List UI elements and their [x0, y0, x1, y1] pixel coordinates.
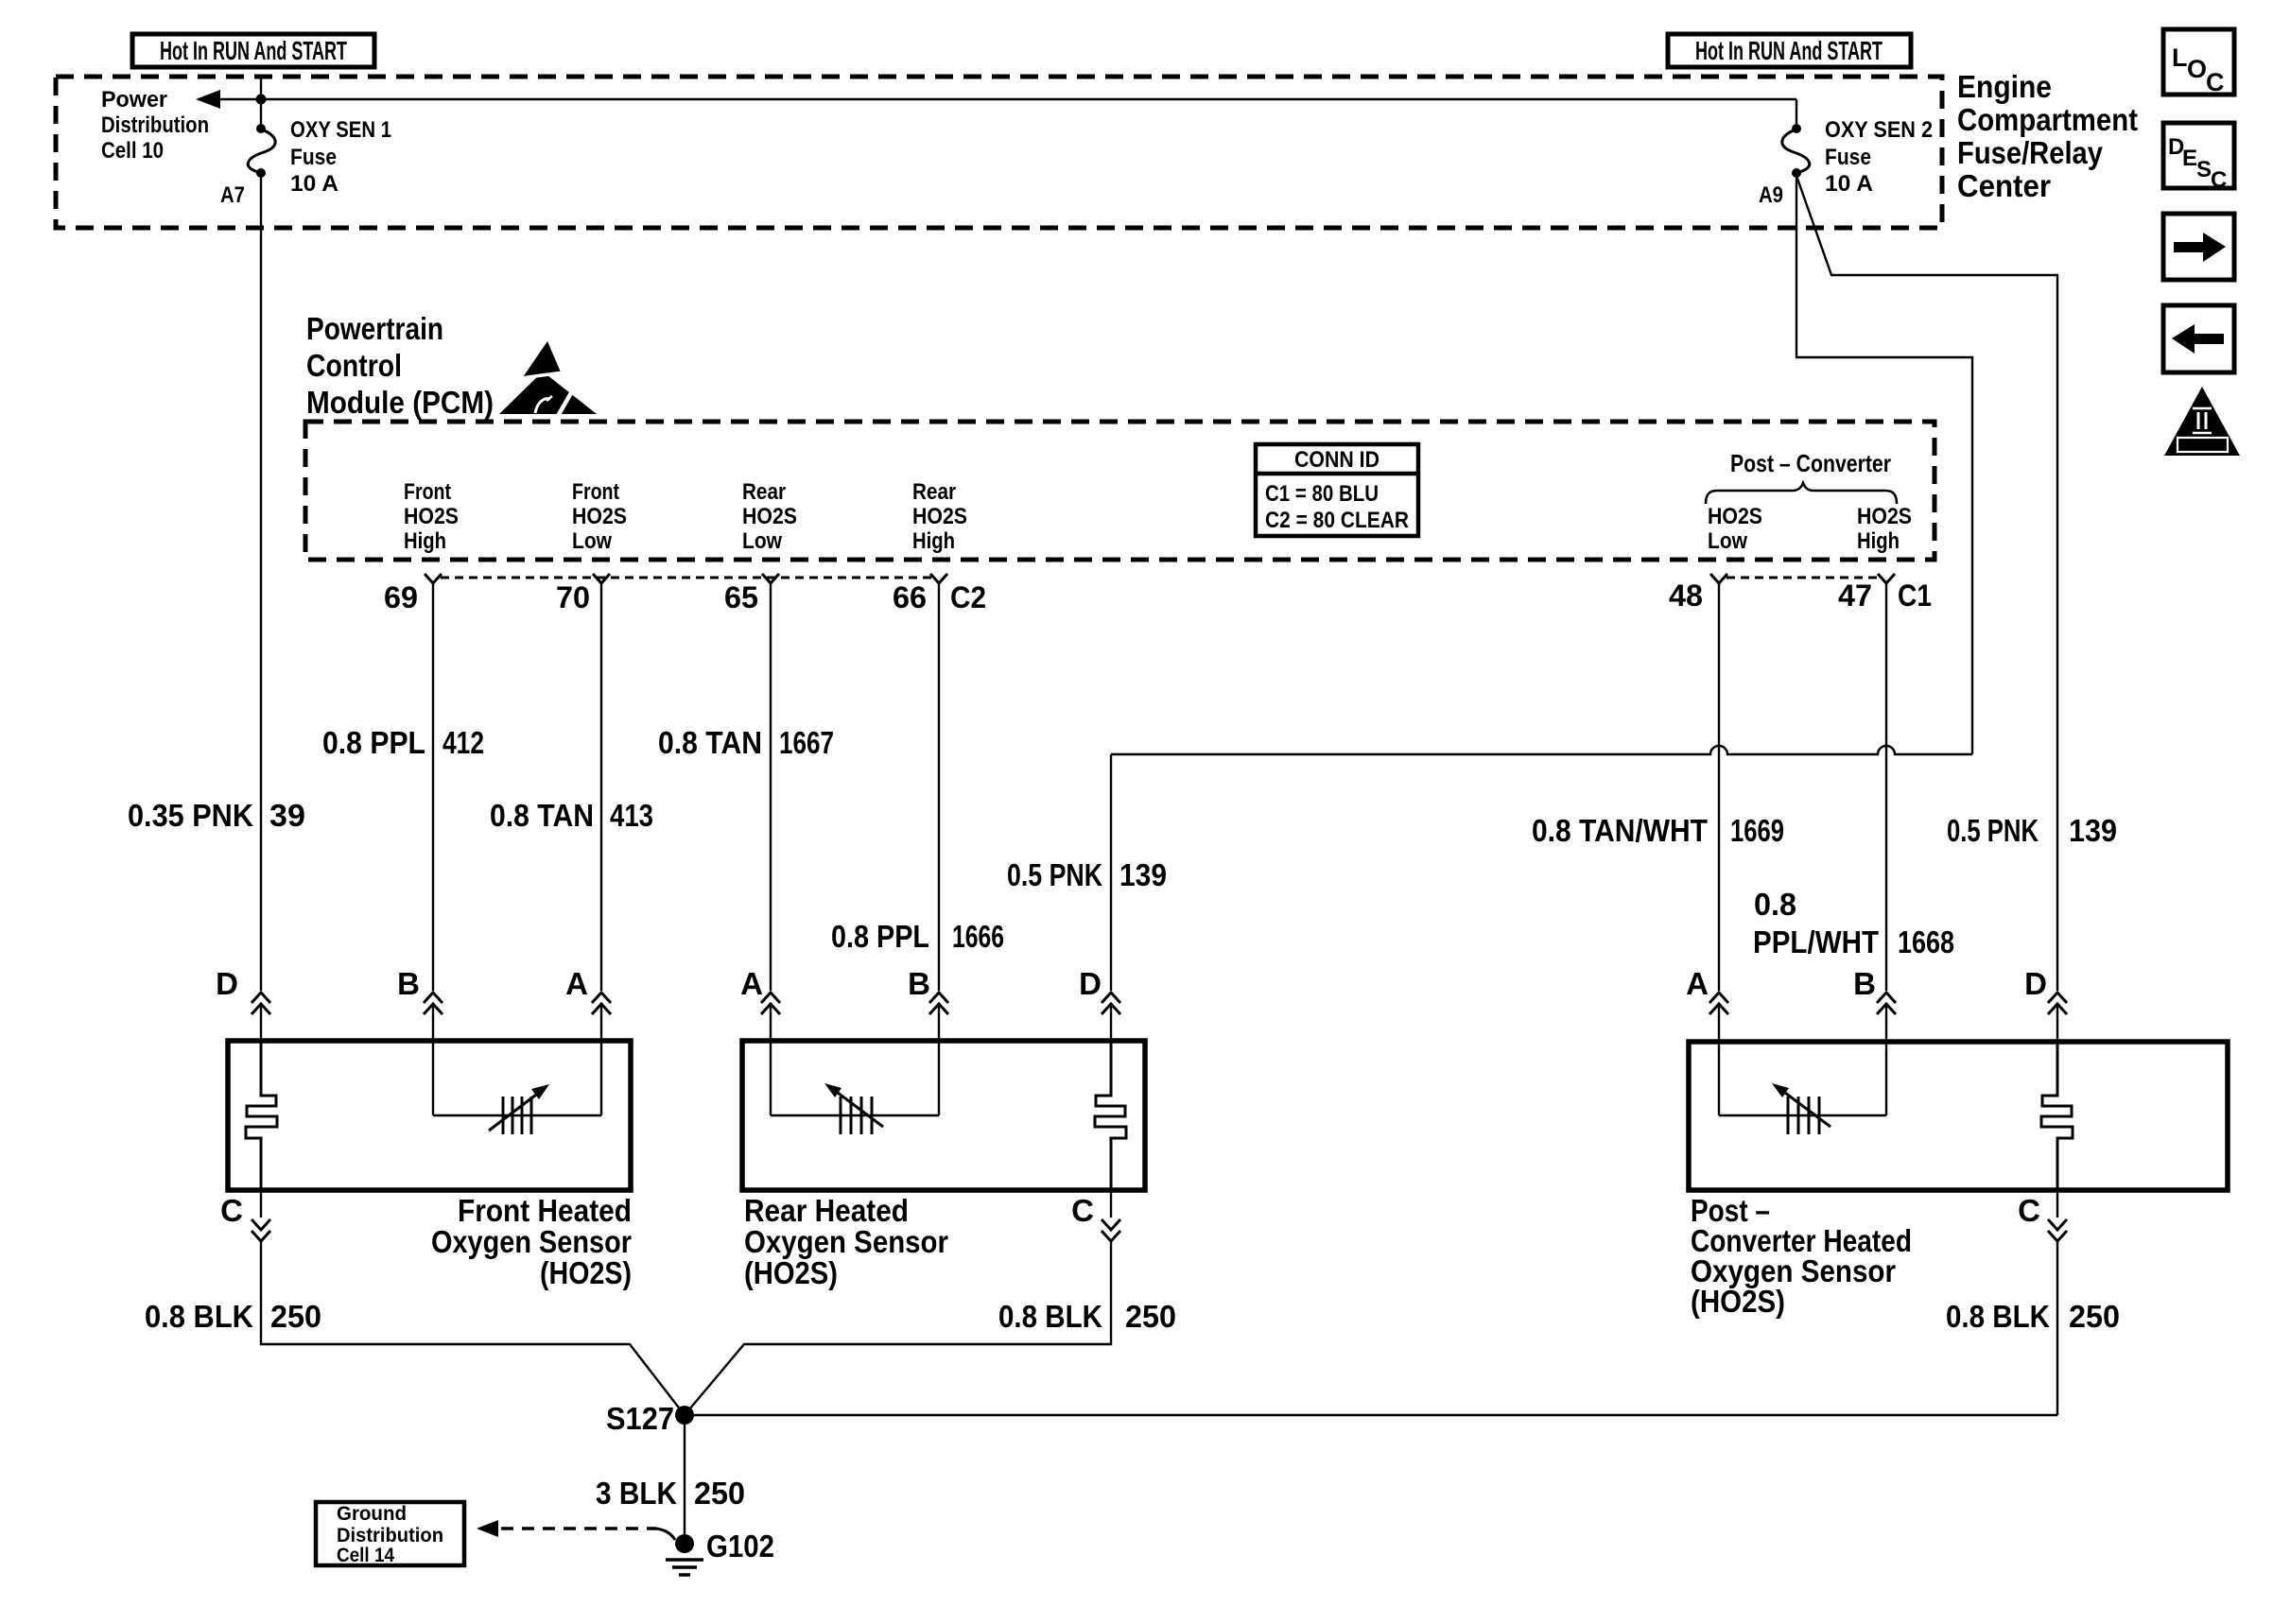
wire label: 0.35 PNK 39	[128, 798, 305, 833]
svg-text:C1: C1	[1898, 579, 1932, 613]
svg-text:C1 = 80 BLU: C1 = 80 BLU	[1265, 481, 1379, 507]
svg-text:OXY SEN 1: OXY SEN 1	[290, 117, 391, 143]
label: sensor name post	[1691, 1193, 1912, 1319]
connector chevrons: rear A	[761, 993, 780, 1014]
rear variable resistor ticks	[841, 1097, 872, 1134]
connector chevrons: rear D	[1102, 993, 1120, 1014]
svg-text:Fuse: Fuse	[1825, 145, 1871, 170]
svg-text:A9: A9	[1759, 182, 1783, 208]
svg-text:Front Heated: Front Heated	[458, 1193, 632, 1228]
label box: Ground Distribution Cell 14	[316, 1502, 464, 1566]
svg-text:Distribution: Distribution	[101, 112, 209, 138]
svg-text:0.35 PNK: 0.35 PNK	[128, 798, 253, 833]
svg-text:PPL/WHT: PPL/WHT	[1753, 924, 1879, 959]
wire: A9 fuse output path to rear HO2S D (0.5 PNK 139)	[1796, 178, 1972, 754]
post variable resistor ticks	[1788, 1097, 1819, 1134]
svg-text:Oxygen Sensor: Oxygen Sensor	[744, 1224, 948, 1259]
svg-text:1666: 1666	[952, 919, 1004, 954]
svg-text:139: 139	[2069, 813, 2117, 848]
wire label: 0.8 PPL 1666	[831, 919, 1004, 954]
ESD sensitivity symbol	[499, 341, 597, 416]
connector chevrons: front B	[424, 993, 442, 1014]
svg-text:Low: Low	[572, 528, 612, 554]
sidebar icon: LOC	[2163, 29, 2234, 96]
svg-text:70: 70	[556, 580, 590, 614]
svg-text:C: C	[2206, 68, 2225, 96]
svg-text:(HO2S): (HO2S)	[540, 1255, 632, 1290]
svg-text:Hot In RUN And START: Hot In RUN And START	[1695, 36, 1883, 65]
wire: front C to splice (0.8 BLK 250)	[261, 1190, 685, 1415]
svg-text:69: 69	[384, 580, 418, 614]
wire: 0.5 PNK 139 horizontal run with crossover hops	[1111, 746, 1972, 754]
rear variable resistor arrow (up-left)	[824, 1083, 883, 1127]
svg-text:Oxygen Sensor: Oxygen Sensor	[431, 1224, 632, 1259]
wire label: 0.8 TAN 1667	[658, 725, 834, 760]
label: OXY SEN 2 Fuse 10 A	[1825, 117, 1933, 197]
wire: pin 69 to front HO2S B (0.8 PPL 412)	[432, 583, 434, 1115]
label: sensor name rear	[744, 1193, 948, 1290]
svg-text:Rear: Rear	[912, 479, 956, 505]
svg-text:Ground: Ground	[337, 1503, 407, 1525]
svg-text:S: S	[2196, 157, 2212, 182]
rear sensing element loop	[771, 1114, 939, 1116]
svg-text:0.8 TAN: 0.8 TAN	[490, 798, 594, 833]
wire: rear HO2S D drop	[1110, 754, 1112, 1041]
svg-text:Rear Heated: Rear Heated	[744, 1193, 909, 1228]
svg-text:0.8 BLK: 0.8 BLK	[145, 1299, 253, 1334]
PCM pin heading: Rear HO2S High	[912, 479, 967, 554]
svg-text:High: High	[1857, 528, 1900, 554]
svg-text:S127: S127	[606, 1401, 674, 1436]
svg-text:0.8 TAN/WHT: 0.8 TAN/WHT	[1532, 813, 1708, 848]
wire label: 0.8 TAN/WHT 1669	[1532, 813, 1784, 848]
sidebar icon: arrow right	[2163, 214, 2234, 280]
svg-text:250: 250	[2069, 1299, 2120, 1334]
fuse OXY SEN 2 10A	[1782, 124, 1810, 178]
post sensing element loop	[1719, 1114, 1886, 1116]
svg-text:3 BLK: 3 BLK	[596, 1476, 677, 1511]
wire label: 0.5 PNK 139 (post)	[1947, 813, 2117, 848]
svg-text:1668: 1668	[1898, 924, 1954, 959]
wire: A7 drop from box top	[260, 77, 262, 124]
wire label: 0.8 TAN 413	[490, 798, 653, 833]
wire: post C to splice (0.8 BLK 250)	[2056, 1190, 2058, 1415]
ground G102	[666, 1529, 774, 1575]
svg-text:65: 65	[724, 580, 758, 614]
svg-text:Center: Center	[1957, 168, 2051, 203]
svg-text:High: High	[912, 528, 955, 554]
connector chevrons: rear C	[1102, 1219, 1120, 1241]
connector chevrons: front C	[252, 1219, 270, 1241]
svg-text:D: D	[1079, 966, 1102, 1001]
svg-text:Fuse/Relay: Fuse/Relay	[1957, 135, 2104, 170]
wire: A7 fuse output 0.35 PNK 39 down to front HO2S D	[260, 178, 262, 1041]
front variable resistor ticks	[503, 1097, 531, 1134]
heater element rear (D-C)	[1095, 1041, 1126, 1190]
svg-text:Post – Converter: Post – Converter	[1730, 449, 1891, 477]
connector chevrons: post D	[2048, 993, 2067, 1014]
svg-text:C: C	[2018, 1193, 2040, 1228]
PCM pin heading: HO2S Low (post)	[1708, 504, 1762, 554]
wire: pin 47 to post HO2S B (0.8 PPL/WHT 1668)	[1885, 583, 1887, 1115]
svg-text:B: B	[1853, 966, 1876, 1001]
svg-text:Module (PCM): Module (PCM)	[306, 385, 494, 420]
label box: Hot In RUN And START (right)	[1668, 34, 1911, 67]
svg-text:C2 = 80 CLEAR: C2 = 80 CLEAR	[1265, 508, 1409, 533]
svg-text:C: C	[220, 1193, 243, 1228]
pin 66 connector Y	[930, 574, 947, 583]
svg-text:0.8: 0.8	[1754, 887, 1796, 922]
wire: S127 to G102 (3 BLK 250)	[684, 1415, 685, 1544]
pin 48 connector Y	[1710, 574, 1727, 583]
label box: Hot In RUN And START (left)	[132, 34, 374, 67]
svg-text:0.5 PNK: 0.5 PNK	[1947, 813, 2039, 848]
svg-text:Compartment: Compartment	[1957, 102, 2138, 137]
svg-text:E: E	[2182, 146, 2197, 171]
svg-text:HO2S: HO2S	[742, 504, 797, 529]
svg-text:1667: 1667	[779, 725, 834, 760]
svg-text:OXY SEN 2: OXY SEN 2	[1825, 117, 1933, 143]
label: Powertrain Control Module (PCM)	[306, 311, 494, 420]
wire: pin 48 to post HO2S A (0.8 TAN/WHT 1669)	[1718, 583, 1720, 1115]
wire label: 0.8 BLK 250 (rear)	[998, 1299, 1176, 1334]
svg-text:O: O	[2187, 55, 2207, 83]
svg-text:Control: Control	[306, 348, 402, 383]
pin 47 connector Y	[1878, 574, 1895, 583]
PCM connector C2 dashed pin line	[441, 577, 931, 579]
Engine Compartment Fuse/Relay Center dashed box	[56, 77, 1942, 228]
sidebar icon: arrow left	[2163, 305, 2234, 372]
connector chevrons: post C	[2048, 1219, 2067, 1241]
svg-text:OBD II: OBD II	[2182, 439, 2222, 452]
svg-text:0.8 BLK: 0.8 BLK	[998, 1299, 1102, 1334]
wire: pin 70 to front HO2S A (0.8 TAN 413)	[600, 583, 602, 1115]
PCM dashed box	[305, 422, 1935, 560]
svg-text:(HO2S): (HO2S)	[744, 1255, 838, 1290]
svg-text:0.8 PPL: 0.8 PPL	[831, 919, 929, 954]
wire label: 0.8 PPL/WHT 1668	[1753, 887, 1954, 959]
svg-text:Low: Low	[1708, 528, 1747, 554]
svg-text:0.8 PPL: 0.8 PPL	[322, 725, 425, 760]
wire: pin 66 to rear HO2S B (0.8 PPL 1666)	[938, 583, 940, 1115]
svg-text:250: 250	[270, 1299, 321, 1334]
label: OXY SEN 1 Fuse 10 A	[290, 117, 391, 197]
wire label: 0.8 BLK 250 (front)	[145, 1299, 321, 1334]
svg-text:HO2S: HO2S	[912, 504, 967, 529]
wire label: 0.8 PPL 412	[322, 725, 484, 760]
svg-text:250: 250	[1125, 1299, 1176, 1334]
pin 70 connector Y	[593, 574, 610, 583]
wire label: 0.8 BLK 250 (post)	[1946, 1299, 2120, 1334]
PCM pin heading: Rear HO2S Low	[742, 479, 797, 554]
svg-text:A: A	[740, 966, 763, 1001]
pin 69 connector Y	[425, 574, 442, 583]
label: Engine Compartment Fuse/Relay Center	[1957, 69, 2138, 203]
CONN ID table	[1256, 444, 1418, 536]
post variable resistor arrow (up-left)	[1772, 1083, 1831, 1127]
svg-text:Powertrain: Powertrain	[306, 311, 443, 346]
PCM connector C1 dashed pin line	[1726, 577, 1879, 579]
wire label: 0.5 PNK 139 (rear)	[1007, 857, 1167, 892]
svg-text:(HO2S): (HO2S)	[1691, 1284, 1785, 1319]
junction node at A7 feed	[256, 95, 267, 105]
svg-text:A7: A7	[220, 182, 245, 208]
svg-text:413: 413	[610, 798, 653, 833]
svg-text:CONN ID: CONN ID	[1294, 447, 1379, 473]
svg-text:Front: Front	[572, 479, 619, 505]
svg-text:0.8 TAN: 0.8 TAN	[658, 725, 762, 760]
svg-text:10 A: 10 A	[290, 171, 338, 197]
svg-text:High: High	[404, 528, 446, 554]
svg-text:G102: G102	[706, 1529, 774, 1564]
svg-text:C: C	[2211, 167, 2227, 193]
svg-text:48: 48	[1669, 579, 1703, 613]
wire: S127 to post C run	[685, 1414, 2057, 1416]
svg-text:Engine: Engine	[1957, 69, 2052, 104]
svg-text:D: D	[2024, 966, 2047, 1001]
splice S127	[606, 1401, 694, 1436]
PCM pin heading: HO2S High (post)	[1857, 504, 1912, 554]
svg-text:HO2S: HO2S	[572, 504, 627, 529]
wire: rear C to splice (0.8 BLK 250)	[685, 1190, 1111, 1415]
svg-text:10 A: 10 A	[1825, 171, 1873, 197]
wire: pin 65 to rear HO2S A (0.8 TAN 1667)	[770, 583, 772, 1115]
svg-text:1669: 1669	[1730, 813, 1784, 848]
svg-text:Power: Power	[101, 87, 167, 112]
PCM pin heading: Front HO2S Low	[572, 479, 627, 554]
wire: top feed bus to Power Distribution (arrow)	[196, 90, 1796, 109]
svg-text:D: D	[216, 966, 238, 1001]
connector chevrons: post B	[1877, 993, 1896, 1014]
svg-text:HO2S: HO2S	[1708, 504, 1762, 529]
PCM pin heading: Front HO2S High	[404, 479, 459, 554]
connector chevrons: front D	[252, 993, 270, 1014]
svg-text:0.5 PNK: 0.5 PNK	[1007, 857, 1102, 892]
svg-text:Front: Front	[404, 479, 451, 505]
fuse OXY SEN 1 10A	[248, 124, 275, 178]
svg-text:Rear: Rear	[742, 479, 786, 505]
svg-text:Low: Low	[742, 528, 782, 554]
sidebar icon: OBD II triangle	[2164, 387, 2240, 456]
wire: A9 fuse diagonal branch to post HO2S D (0.5 PNK 139)	[1796, 176, 2057, 1042]
Front Heated Oxygen Sensor box	[228, 1041, 631, 1190]
svg-text:39: 39	[269, 798, 305, 833]
connector chevrons: rear B	[929, 993, 948, 1014]
Post-Converter Heated Oxygen Sensor box	[1689, 1042, 2228, 1190]
label: Power Distribution Cell 10	[101, 87, 209, 164]
svg-text:Fuse: Fuse	[290, 145, 337, 170]
svg-text:0.8 BLK: 0.8 BLK	[1946, 1299, 2050, 1334]
svg-text:139: 139	[1119, 857, 1167, 892]
sidebar icon: DESC	[2163, 123, 2234, 193]
heater element front (D-C)	[246, 1041, 277, 1190]
svg-text:66: 66	[893, 580, 927, 614]
dashed reference arrow to Ground Distribution	[477, 1520, 675, 1540]
front variable resistor arrow (up-right)	[489, 1084, 549, 1131]
svg-text:HO2S: HO2S	[1857, 504, 1912, 529]
pin 65 connector Y	[762, 574, 779, 583]
wire: A9 drop from bus	[1796, 99, 1797, 124]
svg-text:L: L	[2172, 43, 2188, 72]
wire label: 3 BLK 250	[596, 1476, 745, 1511]
svg-text:A: A	[1686, 966, 1709, 1001]
label: sensor name front	[431, 1193, 632, 1290]
svg-text:412: 412	[442, 725, 484, 760]
svg-text:HO2S: HO2S	[404, 504, 459, 529]
svg-text:B: B	[397, 966, 420, 1001]
brace over Post-Converter pins	[1706, 483, 1897, 504]
svg-text:B: B	[908, 966, 930, 1001]
svg-text:A: A	[565, 966, 588, 1001]
svg-text:Distribution: Distribution	[337, 1525, 443, 1546]
svg-text:C: C	[1071, 1193, 1094, 1228]
svg-text:47: 47	[1838, 579, 1872, 613]
svg-text:Cell 14: Cell 14	[337, 1545, 394, 1566]
svg-text:Cell 10: Cell 10	[101, 138, 164, 164]
connector chevrons: front A	[592, 993, 611, 1014]
connector chevrons: post A	[1709, 993, 1728, 1014]
heater element post (D-C)	[2041, 1042, 2073, 1190]
svg-text:250: 250	[694, 1476, 745, 1511]
svg-text:Hot In RUN And START: Hot In RUN And START	[160, 36, 347, 65]
Rear Heated Oxygen Sensor box	[742, 1041, 1145, 1190]
front sensing element loop	[433, 1114, 601, 1116]
svg-text:C2: C2	[950, 580, 986, 614]
